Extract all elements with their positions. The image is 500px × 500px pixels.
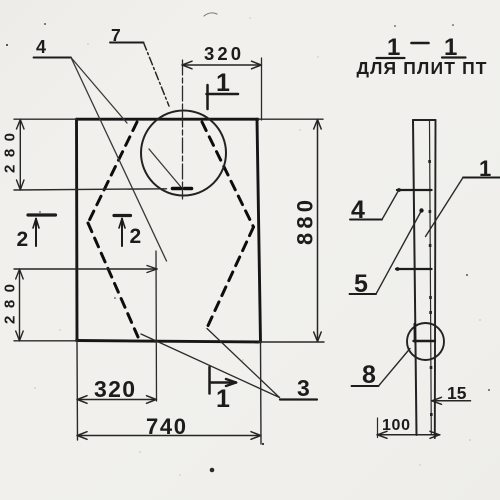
label 4 underline: [34, 57, 72, 59]
right edge extension down to 740 line: [260, 342, 263, 444]
label 3 leader to right loop end: [207, 329, 280, 398]
dashed lifting-loop outline, right upper segment: [202, 122, 254, 227]
detail circle 8 at section bottom: [407, 323, 444, 360]
svg-text:2: 2: [130, 225, 142, 248]
connecting bar inside detail circle: [414, 340, 436, 342]
thickened edge above bar: [413, 324, 416, 342]
label 4 leader lower: [71, 58, 167, 262]
svg-text:1: 1: [216, 69, 230, 97]
label 3 underline: [280, 398, 317, 400]
svg-text:15: 15: [447, 383, 467, 403]
dashed lifting-loop outline, right lower segment: [206, 227, 254, 330]
section mark 2 (inner): [114, 216, 131, 247]
reference line with arrow at lower loop level: [14, 266, 157, 273]
section mark 1 (bottom): [210, 367, 237, 394]
svg-text:280: 280: [2, 133, 19, 173]
bottom edge extension lines: [14, 340, 77, 342]
section mark 2 (outer left): [28, 215, 56, 246]
svg-text:4: 4: [36, 37, 46, 57]
plate outline rectangle: [77, 119, 261, 342]
loop anchor center mark: [173, 187, 192, 191]
svg-text:1: 1: [216, 385, 230, 413]
label 7 underline: [110, 42, 144, 44]
dimension 280 (lower left) line: [16, 269, 24, 341]
extension tick for 100 left end: [377, 418, 379, 438]
dimension 280 (upper left) line: [17, 119, 25, 190]
label 4 leader to loop center (upper part): [71, 58, 127, 124]
label 7 dash-dot leader to circle: [144, 43, 170, 107]
vertical centerline through circle: [182, 60, 184, 199]
dashed lifting-loop outline, left lower segment: [88, 223, 138, 337]
dimension 880 (right) line: [314, 119, 322, 342]
label 4 leader to loop center (inside circle): [149, 149, 181, 187]
left edge extension down to 740 line: [76, 341, 79, 441]
dimension 320 (top) line: [182, 61, 262, 69]
horizontal reference line at loop anchor level: [14, 189, 167, 190]
detail callout circle on loop: [141, 111, 226, 196]
dashed lifting-loop outline, left upper segment: [88, 122, 137, 223]
svg-text:880: 880: [293, 200, 318, 245]
rebar tick dots along mesh line: [428, 160, 432, 416]
label 3 leader to left loop end: [141, 334, 280, 398]
dimension 740 (bottom) line: [77, 432, 261, 440]
svg-text:3: 3: [297, 375, 310, 401]
svg-text:8: 8: [362, 361, 376, 389]
section body: left edge: [413, 120, 417, 435]
svg-text:2: 2: [17, 228, 29, 251]
faint stray pencil mark: [204, 13, 217, 16]
section body: top edge: [413, 119, 436, 121]
top edge extension lines: [14, 118, 77, 120]
svg-text:ДЛЯ ПЛИТ ПТ: ДЛЯ ПЛИТ ПТ: [357, 58, 487, 78]
svg-text:320: 320: [94, 376, 135, 402]
vertical extension line at x of loop end: [155, 251, 158, 401]
extension line for 320 top: [261, 58, 263, 120]
svg-text:320: 320: [204, 43, 241, 64]
svg-text:740: 740: [146, 414, 186, 439]
dimension 320 (bottom) line: [77, 396, 157, 404]
section mark 1 (top): [207, 85, 239, 109]
mesh line inside section: [430, 121, 432, 434]
mesh bar position 5 (horizontal tick across section): [396, 268, 432, 270]
mesh bar position 4 (horizontal tick across section): [397, 189, 432, 191]
section body: right edge: [434, 120, 437, 438]
svg-text:280: 280: [2, 284, 19, 324]
